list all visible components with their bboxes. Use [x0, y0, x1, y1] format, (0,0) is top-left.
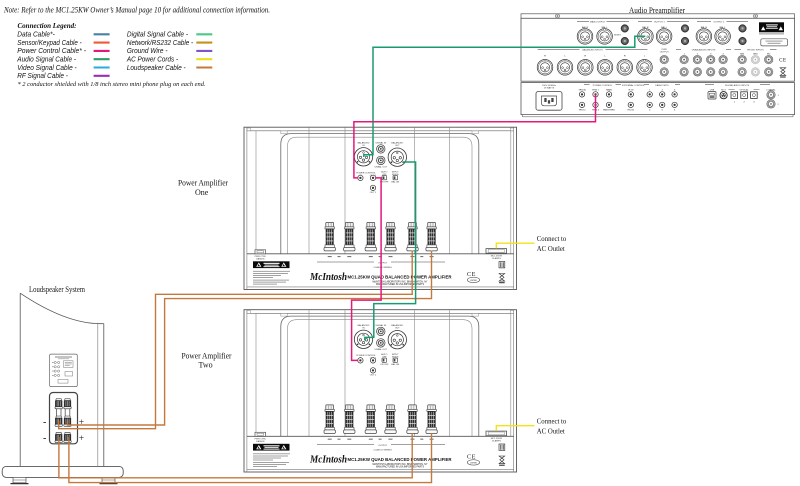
svg-text:Power Amplifier: Power Amplifier — [178, 179, 228, 188]
svg-text:BALANCED INPUTS: BALANCED INPUTS — [582, 49, 603, 52]
svg-text:OUTPUT 1: OUTPUT 1 — [654, 21, 666, 23]
svg-text:Two: Two — [199, 361, 213, 370]
svg-text:AC Outlet: AC Outlet — [537, 245, 565, 253]
frame top brackets — [281, 131, 287, 134]
svg-text:MONO: MONO — [614, 34, 621, 36]
audio cable preamp out to amp1 balanced in — [364, 36, 646, 157]
svg-text:TRIG 2: TRIG 2 — [578, 110, 586, 112]
speaker info label — [50, 354, 78, 387]
legend swatch data cable — [94, 33, 110, 35]
XLR out1 L — [656, 29, 672, 45]
power control jack in — [358, 175, 363, 180]
amp chassis outline — [244, 127, 517, 289]
label unbalanced inputs — [676, 49, 681, 51]
speaker inner edge — [97, 323, 99, 467]
svg-text:DATA IN: DATA IN — [256, 258, 265, 261]
svg-text:OUTPUT: OUTPUT — [660, 52, 670, 54]
amp top bar — [247, 130, 514, 132]
weee preamp — [780, 68, 786, 77]
svg-text:MANUFACTURED IN USA IMPORTED P: MANUFACTURED IN USA IMPORTED PARTS — [376, 283, 424, 286]
svg-text:PHONO INPUTS: PHONO INPUTS — [747, 50, 764, 52]
iec power inlet — [536, 92, 562, 111]
svg-text:-: - — [43, 433, 46, 444]
svg-text:BALANCED: BALANCED — [358, 141, 370, 144]
svg-text:Power Amplifier: Power Amplifier — [182, 351, 232, 360]
ground posts — [751, 55, 759, 76]
input mode switch — [393, 176, 398, 180]
svg-text:LISTED: LISTED — [470, 280, 478, 282]
svg-text:OUTPUT 2: OUTPUT 2 — [713, 21, 725, 23]
svg-text:OUTPUT: OUTPUT — [378, 262, 388, 264]
legend swatch video signal cable — [94, 66, 110, 68]
bottom strip top line — [247, 253, 514, 255]
terminal row1 — [55, 399, 62, 409]
binding post 4 — [385, 222, 396, 251]
jumper strap right — [65, 406, 70, 420]
svg-text:OPTICAL: OPTICAL — [739, 88, 749, 91]
auto off switch — [382, 176, 387, 180]
heatsink divider lines — [308, 128, 310, 254]
section label output 1 — [638, 20, 652, 22]
svg-text:EXTERNAL CONTROL: EXTERNAL CONTROL — [622, 84, 646, 87]
power control jacks — [579, 92, 584, 97]
XLR main out L — [597, 29, 613, 45]
XLR input 2L — [597, 60, 613, 76]
XLR out2 L — [715, 29, 731, 45]
svg-text:USB: USB — [710, 89, 715, 91]
bottom strip bottom line — [247, 286, 514, 288]
svg-text:BALANCED: BALANCED — [391, 141, 403, 144]
RCA phono mc — [765, 55, 773, 63]
svg-text:McIntosh: McIntosh — [309, 272, 347, 283]
section power control — [584, 84, 590, 86]
svg-text:OUT: OUT — [395, 145, 400, 147]
svg-text:MAIN OUTPUT: MAIN OUTPUT — [590, 20, 606, 23]
speaker top curve — [20, 293, 104, 323]
legend swatch network/rs232 cable — [196, 42, 212, 44]
serial label — [761, 39, 788, 46]
power amplifier chassis (drawn once, reused) — [244, 127, 567, 289]
section digital audio inputs — [705, 84, 714, 86]
svg-text:PASSTHRU: PASSTHRU — [603, 109, 615, 112]
speaker left edge — [19, 293, 21, 466]
XLR out1 R — [638, 29, 654, 45]
external control jacks — [628, 92, 633, 97]
binding post 2 — [344, 222, 355, 251]
RCA unbal row2 — [680, 68, 688, 76]
listing oval — [467, 277, 479, 282]
warning label — [253, 261, 290, 268]
power control jack out1 — [370, 175, 375, 180]
binding post 5 — [407, 222, 418, 251]
coaxial input 2 — [767, 100, 775, 108]
legend swatch power control cable — [94, 50, 110, 52]
terminal row3 — [55, 432, 62, 442]
svg-text:TRIG A: TRIG A — [578, 88, 586, 91]
svg-text:CLASS D WIRING: CLASS D WIRING — [374, 266, 392, 269]
legend swatch sensor/keypad cable — [94, 42, 110, 44]
speaker terminal panel — [50, 393, 78, 444]
output rule and label — [317, 261, 374, 263]
svg-text:RF Signal Cable -: RF Signal Cable - — [17, 71, 68, 80]
RCA pwr output bottom — [660, 68, 668, 76]
svg-text:RS232: RS232 — [627, 110, 634, 112]
legend left column labels — [16, 30, 86, 81]
knobs out2 — [739, 25, 747, 33]
preamp upper panel — [521, 18, 795, 81]
data port jacks — [647, 92, 652, 97]
binding post 3 — [365, 222, 376, 251]
svg-text:MAIN: MAIN — [606, 88, 612, 91]
xlr labels row1 — [582, 26, 726, 29]
heatsink frame outer — [281, 134, 479, 254]
power control cable amp1 to amp2 — [352, 178, 382, 361]
svg-text:BAL UN: BAL UN — [391, 180, 399, 183]
XLR input 1L — [557, 60, 573, 76]
svg-text:+: + — [79, 418, 84, 428]
svg-text:UNBALANCED INPUTS: UNBALANCED INPUTS — [692, 49, 716, 52]
knobs main — [621, 25, 629, 33]
label optical — [729, 89, 735, 91]
binding post 1 — [324, 222, 335, 251]
audio preamplifier — [521, 14, 795, 117]
section label output 2 — [697, 20, 711, 22]
svg-text:15 WATTS: 15 WATTS — [544, 86, 555, 89]
RCA signal in — [377, 145, 385, 153]
audio cable amp1 balanced out to amp2 balanced in — [365, 162, 416, 340]
usb input — [708, 92, 716, 99]
legend swatch rf signal cable — [94, 75, 110, 77]
svg-text:* 2 conductor shielded with 1/: * 2 conductor shielded with 1/8 inch ste… — [18, 81, 206, 88]
XLR input 2R — [578, 60, 594, 76]
svg-text:DIGITAL AUDIO INPUTS: DIGITAL AUDIO INPUTS — [725, 84, 750, 87]
svg-text:Note: Refer to the MC1.25KW Ow: Note: Refer to the MC1.25KW Owner’s Manu… — [3, 6, 270, 15]
warning label preamp — [759, 22, 784, 34]
loudspeaker system — [2, 293, 123, 483]
loudspeaker cable amp1 post5 to speaker row2 minus — [59, 251, 413, 429]
terminal row2 — [55, 416, 62, 426]
loudspeaker cable amp1 post6 to speaker row2 plus — [68, 251, 432, 426]
XLR input 1R — [537, 60, 553, 76]
screw left — [556, 14, 560, 18]
preamp lower panel — [521, 83, 795, 115]
legend swatch ground wire — [196, 50, 212, 52]
binding post 6 — [426, 222, 437, 251]
knobs out1 — [681, 25, 689, 33]
legend right column labels — [126, 30, 194, 72]
legend swatch loudspeaker cable — [196, 66, 212, 68]
svg-text:-: - — [43, 417, 46, 428]
XLR balanced in — [354, 148, 372, 166]
svg-text:Loudspeaker System: Loudspeaker System — [29, 285, 86, 294]
RCA pwr output top — [660, 55, 668, 63]
label phono inputs — [735, 49, 742, 51]
XLR main out R — [577, 29, 593, 45]
legend swatch ac power cords — [196, 58, 212, 60]
warning fine print — [253, 271, 290, 285]
optical input 2 — [741, 92, 748, 99]
right icon stack — [499, 262, 505, 268]
speaker base — [2, 466, 123, 477]
svg-text:SIGNAL IN: SIGNAL IN — [375, 141, 386, 144]
amp side panel lines — [255, 131, 257, 254]
foot right — [102, 477, 115, 482]
svg-text:IR IN: IR IN — [628, 89, 633, 91]
post terminal labels — [328, 255, 434, 258]
svg-text:+: + — [79, 434, 84, 444]
loudspeaker cable amp2 post6 to speaker row3 plus — [69, 433, 432, 483]
power control block left — [255, 250, 266, 254]
svg-text:TRIG 1: TRIG 1 — [592, 89, 600, 91]
svg-text:POWER CONTROL: POWER CONTROL — [593, 85, 613, 87]
legend swatch digital signal cable — [196, 33, 212, 35]
svg-text:15 AMPS: 15 AMPS — [492, 257, 502, 260]
svg-text:MC1.25KW QUAD BALANCED POWER A: MC1.25KW QUAD BALANCED POWER AMPLIFIER — [348, 275, 453, 280]
ac power inlet — [486, 249, 507, 254]
mct input — [720, 92, 727, 99]
power control jack out2 — [370, 185, 375, 190]
section label balanced inputs — [538, 49, 580, 51]
xlr input labels — [544, 56, 646, 58]
coaxial input 1 — [767, 91, 775, 99]
preamp bottom edge — [523, 115, 794, 117]
section label main output — [577, 20, 589, 22]
section data ports — [644, 84, 649, 86]
svg-text:DATA PORTS: DATA PORTS — [655, 84, 669, 87]
preamp top mounting strip — [521, 14, 795, 18]
power amplifier two (reuse of chassis) — [244, 310, 567, 472]
foot left — [13, 477, 26, 482]
loudspeaker cable amp2 post5 to speaker row3 minus — [59, 433, 412, 478]
XLR balanced out — [388, 148, 406, 166]
optical input 3 — [751, 92, 758, 99]
XLR out2 R — [696, 29, 712, 45]
svg-text:One: One — [195, 188, 209, 197]
jumper strap left — [56, 406, 61, 420]
XLR input 3R — [617, 60, 633, 76]
legend swatch audio signal cable — [94, 58, 110, 60]
RCA unbal row1 — [680, 55, 688, 63]
ac power cord wire — [496, 243, 534, 248]
power control cable preamp to amp1 — [354, 94, 596, 177]
XLR input 3L — [637, 60, 653, 76]
svg-text:MCT: MCT — [721, 89, 726, 91]
speaker right edge — [103, 324, 105, 467]
svg-text:Loudspeaker Cable -: Loudspeaker Cable - — [127, 63, 186, 72]
svg-text:Connect to: Connect to — [537, 235, 567, 243]
RCA unbal out — [377, 156, 385, 164]
optical input 1 — [731, 92, 738, 99]
svg-text:CE: CE — [779, 58, 787, 63]
svg-text:UNBAL OUT: UNBAL OUT — [375, 166, 388, 169]
svg-text:OUT 2: OUT 2 — [370, 192, 377, 194]
RCA phono mm — [738, 55, 746, 63]
weee icon — [499, 274, 505, 283]
screw right — [754, 14, 758, 18]
heatsink frame inner — [288, 137, 473, 254]
